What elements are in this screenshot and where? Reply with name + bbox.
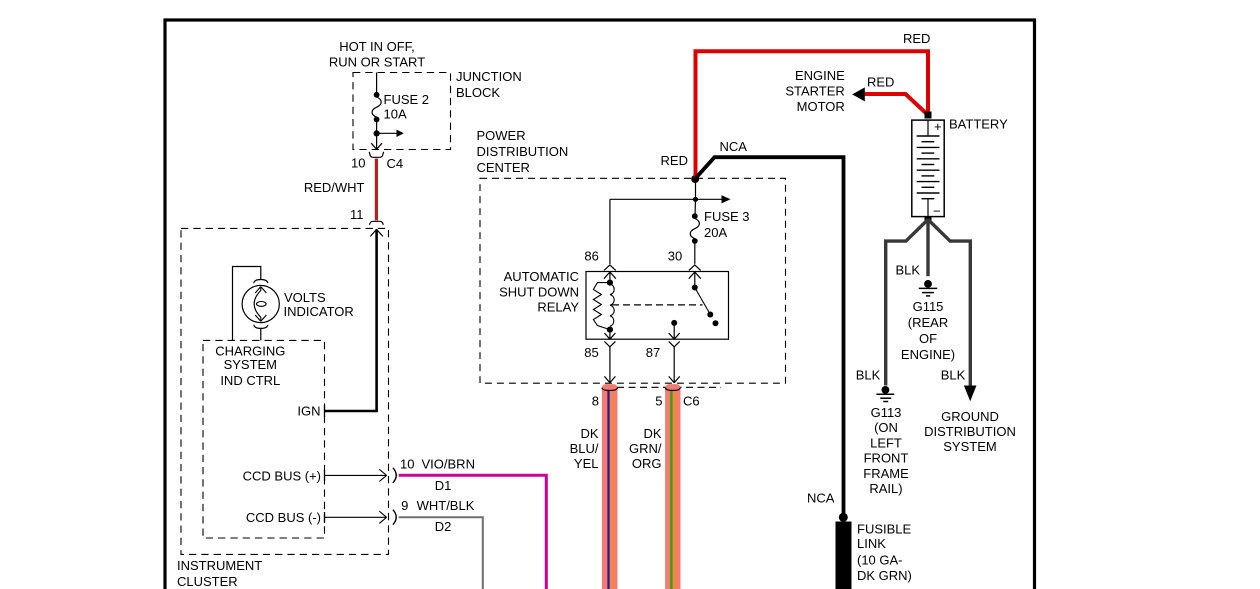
svg-text:DK: DK <box>643 426 661 441</box>
junction block box <box>353 73 451 150</box>
wire RED battery feed loop <box>696 51 929 178</box>
relay K1 box <box>586 272 729 340</box>
svg-text:SYSTEM: SYSTEM <box>943 439 996 454</box>
svg-text:20A: 20A <box>704 225 727 240</box>
svg-text:FRAME: FRAME <box>863 466 909 481</box>
svg-text:DISTRIBUTION: DISTRIBUTION <box>477 144 569 159</box>
volts indicator V1 <box>242 280 279 329</box>
svg-text:BLK: BLK <box>896 262 921 277</box>
wire to relay pin 86 <box>609 199 611 264</box>
label: 9 WHT/BLK D2 <box>401 498 475 534</box>
svg-text:YEL: YEL <box>574 456 599 471</box>
label: VOLTS INDICATOR <box>284 290 354 319</box>
pin 30 connector chevron and arrow <box>689 265 701 288</box>
CCD BUS (-) pin wire and arrow <box>325 510 397 525</box>
svg-text:ENGINE): ENGINE) <box>901 347 955 362</box>
svg-text:10: 10 <box>351 156 365 171</box>
svg-text:JUNCTION: JUNCTION <box>456 69 522 84</box>
wire VIO/BRN (magenta) <box>399 475 547 589</box>
label: INSTRUMENT CLUSTER <box>177 558 262 589</box>
svg-text:D2: D2 <box>435 519 452 534</box>
junction node below fuse F2 with branch arrow <box>374 130 404 137</box>
svg-text:OF: OF <box>919 331 937 346</box>
svg-text:RED: RED <box>867 75 894 90</box>
svg-text:RED: RED <box>903 31 930 46</box>
node: battery negative junction <box>925 216 932 223</box>
arrow to ground distribution system <box>964 386 977 402</box>
svg-text:BATTERY: BATTERY <box>949 117 1008 132</box>
wire RED to starter motor <box>864 94 928 115</box>
svg-text:LEFT: LEFT <box>870 435 902 450</box>
label: POWER DISTRIBUTION CENTER <box>477 128 569 175</box>
svg-text:86: 86 <box>584 249 598 264</box>
pin tick IGN <box>324 405 326 417</box>
svg-text:RED: RED <box>661 153 688 168</box>
svg-text:NCA: NCA <box>720 139 748 154</box>
svg-text:FUSE 3: FUSE 3 <box>704 209 750 224</box>
svg-text:C4: C4 <box>387 156 404 171</box>
svg-text:HOT IN OFF,: HOT IN OFF, <box>339 39 415 54</box>
svg-text:G115: G115 <box>913 299 944 314</box>
label: 10 VIO/BRN D1 <box>400 456 475 493</box>
label: HOT IN OFF, RUN OR START <box>329 39 425 70</box>
svg-text:RAIL): RAIL) <box>869 481 902 496</box>
svg-text:RED/WHT: RED/WHT <box>304 180 365 195</box>
charging system ind ctrl box <box>203 340 325 538</box>
svg-text:SHUT DOWN: SHUT DOWN <box>499 285 579 300</box>
svg-text:BLOCK: BLOCK <box>456 85 500 100</box>
wire DK BLU/YEL highlighted band <box>602 384 618 589</box>
battery B1 <box>912 119 944 219</box>
arrow to engine starter motor <box>852 87 865 101</box>
node: fusible link junction <box>839 513 848 522</box>
wire IGN (thick black inside cluster) <box>325 229 383 411</box>
svg-text:G113: G113 <box>871 405 902 420</box>
fusible link (thick bar) <box>836 522 852 589</box>
label: FUSE 3 20A <box>704 209 750 240</box>
label: DK BLU/ YEL <box>570 426 599 471</box>
svg-text:POWER: POWER <box>477 128 526 143</box>
svg-text:RELAY: RELAY <box>537 300 579 315</box>
fuse F2 <box>372 92 381 133</box>
svg-text:+: + <box>934 119 942 134</box>
pin 87 exit arrows <box>669 320 680 383</box>
label: DK GRN/ ORG <box>629 426 662 471</box>
svg-text:10A: 10A <box>384 107 407 122</box>
ground G113 <box>876 386 894 402</box>
label: JUNCTION BLOCK <box>456 69 522 100</box>
svg-text:WHT/BLK: WHT/BLK <box>417 498 475 513</box>
volts indicator leads <box>233 267 261 341</box>
wire RED/WHT <box>375 159 378 221</box>
label: FUSE 2 10A <box>384 92 430 122</box>
svg-text:11: 11 <box>350 207 364 222</box>
svg-text:CLUSTER: CLUSTER <box>177 574 238 589</box>
svg-text:CENTER: CENTER <box>477 160 530 175</box>
label: FUSIBLE LINK (10 GA- DK GRN) <box>857 522 912 584</box>
svg-text:INSTRUMENT: INSTRUMENT <box>177 558 262 573</box>
power distribution center box <box>480 178 786 383</box>
svg-text:IND CTRL: IND CTRL <box>220 373 280 388</box>
svg-text:AUTOMATIC: AUTOMATIC <box>504 269 579 284</box>
svg-text:30: 30 <box>668 249 682 264</box>
svg-text:CCD BUS (+): CCD BUS (+) <box>243 469 321 484</box>
svg-text:5: 5 <box>655 393 662 408</box>
svg-text:10: 10 <box>400 456 414 471</box>
wire WHT/BLK (gray) <box>399 517 483 589</box>
instrument cluster box <box>181 228 389 554</box>
svg-text:NCA: NCA <box>807 491 835 506</box>
svg-text:C6: C6 <box>683 393 700 408</box>
label: pin 10 / C4 <box>351 156 403 172</box>
svg-text:MOTOR: MOTOR <box>797 99 845 114</box>
label: 5 / C6 <box>655 393 699 408</box>
svg-text:DISTRIBUTION: DISTRIBUTION <box>924 424 1016 439</box>
label: AUTOMATIC SHUT DOWN RELAY <box>499 269 579 315</box>
svg-text:DK GRN): DK GRN) <box>857 568 912 583</box>
svg-text:FUSIBLE: FUSIBLE <box>857 522 912 537</box>
svg-text:ORG: ORG <box>632 456 662 471</box>
svg-text:−: − <box>933 204 941 219</box>
svg-text:9: 9 <box>401 498 408 513</box>
svg-text:STARTER: STARTER <box>785 83 844 98</box>
svg-text:8: 8 <box>592 393 599 408</box>
wire to fuse3/branches <box>610 178 731 203</box>
label: G113 (ON LEFT FRONT FRAME RAIL) <box>863 405 909 496</box>
border frame <box>165 20 1035 589</box>
svg-text:FUSE 2: FUSE 2 <box>384 92 430 107</box>
ground G115 <box>919 280 937 296</box>
wire DK GRN/ORG highlighted band <box>665 384 680 589</box>
svg-text:INDICATOR: INDICATOR <box>284 304 354 319</box>
svg-text:BLU/: BLU/ <box>570 441 599 456</box>
svg-text:(10 GA-: (10 GA- <box>857 553 903 568</box>
svg-text:DK: DK <box>580 426 598 441</box>
connector C6 dashed line <box>617 386 721 388</box>
svg-text:85: 85 <box>584 345 598 360</box>
svg-text:FRONT: FRONT <box>864 451 909 466</box>
wire NCA (black) <box>696 157 844 517</box>
wire down to C4 with arrowhead <box>371 133 382 149</box>
svg-text:GROUND: GROUND <box>941 409 999 424</box>
label: GROUND DISTRIBUTION SYSTEM <box>924 409 1016 454</box>
wire BLK to G113 <box>886 220 928 386</box>
connector 11 cap <box>369 221 383 225</box>
wire BLK to G115 <box>926 220 929 277</box>
wire BLK to ground distribution <box>928 220 970 387</box>
fuse F2 wire from box top <box>376 73 378 95</box>
svg-text:CCD BUS (-): CCD BUS (-) <box>246 510 321 525</box>
dashed mechanical link <box>612 304 703 306</box>
connector C4 cup <box>369 152 383 158</box>
svg-text:ENGINE: ENGINE <box>795 68 845 83</box>
svg-text:VOLTS: VOLTS <box>284 290 326 305</box>
svg-text:IGN: IGN <box>297 404 320 419</box>
svg-text:BLK: BLK <box>941 367 966 382</box>
svg-text:D1: D1 <box>435 478 452 493</box>
svg-text:BLK: BLK <box>856 367 881 382</box>
node: PDC supply junction <box>691 175 699 183</box>
label: ENGINE STARTER MOTOR <box>785 68 845 114</box>
svg-text:RUN OR START: RUN OR START <box>329 55 425 70</box>
svg-text:(REAR: (REAR <box>908 315 948 330</box>
CCD BUS (+) pin wire and arrow <box>325 468 397 483</box>
svg-text:87: 87 <box>646 345 660 360</box>
svg-text:GRN/: GRN/ <box>629 441 662 456</box>
svg-text:LINK: LINK <box>857 536 886 551</box>
pin 86 connector chevron and arrow <box>604 265 616 283</box>
node: battery positive junction <box>925 112 932 119</box>
svg-text:SYSTEM: SYSTEM <box>224 357 277 372</box>
relay switch contacts <box>692 285 719 327</box>
fuse F3 <box>690 199 699 263</box>
label: CHARGING SYSTEM IND CTRL <box>215 343 285 388</box>
svg-text:VIO/BRN: VIO/BRN <box>422 456 475 471</box>
svg-text:(ON: (ON <box>874 420 898 435</box>
relay coil <box>593 280 614 333</box>
label: G115 (REAR OF ENGINE) <box>901 299 955 362</box>
pin 85 exit arrows <box>604 330 615 383</box>
